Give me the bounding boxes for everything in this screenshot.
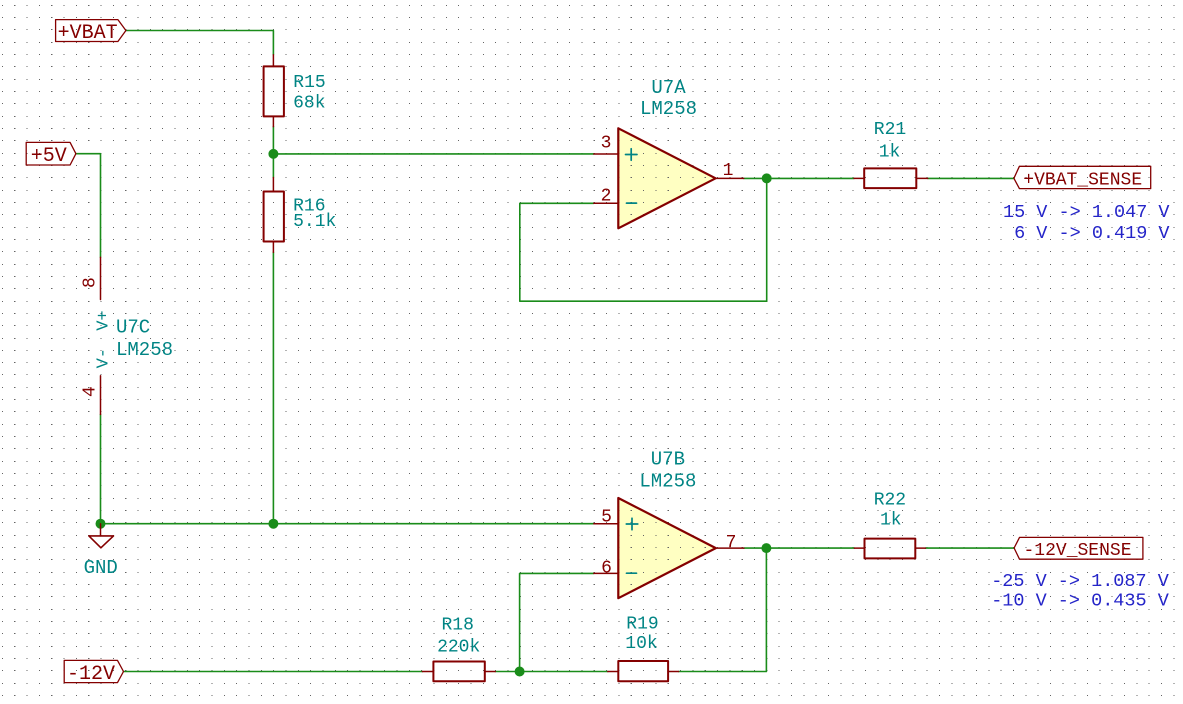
svg-text:1k: 1k: [879, 143, 901, 163]
junction node R16 bottom on GND rail: [268, 519, 278, 529]
op-amp U7C power pin 4 (V-): [100, 376, 102, 415]
hierarchical label -12V_SENSE: [1014, 537, 1143, 559]
hierarchical label +VBAT_SENSE: [1014, 166, 1151, 188]
power label -12V: [64, 660, 123, 682]
svg-text:220k: 220k: [437, 638, 480, 658]
op-amp U7B body fill: [618, 498, 716, 598]
svg-text:10k: 10k: [625, 634, 657, 654]
resistor R21 pins: [854, 177, 928, 179]
svg-text:R22: R22: [874, 491, 906, 511]
resistor R15 pins: [272, 55, 274, 127]
wire U7A output to R21: [744, 177, 854, 179]
svg-text:V-: V-: [94, 348, 113, 368]
wire R22 to -12V_SENSE label: [926, 547, 1015, 549]
op-amp U7C power pin 8 (V+): [100, 257, 102, 299]
junction node U7B output: [761, 543, 771, 553]
resistor R22 pins: [854, 547, 925, 549]
svg-text:4: 4: [80, 386, 100, 397]
svg-text:V+: V+: [94, 310, 113, 330]
wire R18 to R19 through node: [495, 671, 608, 673]
svg-text:U7C: U7C: [116, 317, 150, 339]
resistor R16 pins: [272, 178, 274, 253]
svg-text:2: 2: [601, 187, 612, 207]
wire +VBAT label to R15 top: [126, 31, 273, 55]
junction node GND: [96, 519, 106, 529]
svg-text:1k: 1k: [880, 511, 902, 531]
svg-text:7: 7: [726, 533, 737, 553]
op-amp U7A pins 3,2,1: [594, 154, 744, 203]
svg-text:U7B: U7B: [651, 449, 685, 471]
resistor R19 body: [618, 661, 668, 681]
svg-text:-12V: -12V: [67, 663, 115, 686]
svg-text:LM258: LM258: [116, 339, 173, 361]
resistor R19 pins: [608, 671, 679, 673]
svg-text:GND: GND: [84, 557, 118, 579]
junction node R15/R16 divider: [268, 149, 278, 159]
wire node up to U7B pin 6: [520, 573, 594, 671]
wire R15 bottom to R16 top through node: [272, 127, 274, 178]
wire U7B output to R22: [744, 547, 854, 549]
wire GND rail to U7B pin 5: [101, 523, 594, 525]
resistor R18 pins: [422, 671, 495, 673]
svg-text:5: 5: [601, 507, 612, 527]
op-amp U7A plus input mark: [626, 149, 638, 161]
op-amp U7A body fill: [618, 128, 715, 228]
wire R16 bottom to GND rail: [272, 252, 274, 524]
junction node R18/R19: [515, 667, 525, 677]
svg-text:8: 8: [80, 277, 100, 288]
svg-text:15 V -> 1.047 V: 15 V -> 1.047 V: [1003, 202, 1170, 223]
power label +5V: [26, 142, 76, 165]
op-amp U7A minus input mark: [627, 202, 637, 204]
svg-text:6 V -> 0.419 V: 6 V -> 0.419 V: [1003, 223, 1170, 244]
resistor R18 body: [433, 662, 484, 682]
svg-text:R19: R19: [626, 615, 658, 635]
svg-text:R18: R18: [441, 616, 473, 636]
wire +5V label to U7C pin 8: [76, 154, 101, 258]
svg-text:1: 1: [723, 161, 734, 181]
wire U7A feedback output to pin 2: [520, 178, 767, 301]
wire U7C pin 4 to GND node: [100, 414, 102, 523]
svg-text:+VBAT: +VBAT: [58, 22, 118, 45]
op-amp U7B plus input mark: [626, 518, 638, 530]
power label +VBAT: [56, 20, 126, 42]
svg-text:-25 V -> 1.087 V: -25 V -> 1.087 V: [991, 571, 1169, 592]
svg-text:U7A: U7A: [651, 77, 686, 99]
op-amp U7B body: [618, 498, 716, 598]
resistor R21 body: [864, 168, 916, 188]
op-amp U7B minus input mark: [627, 572, 637, 574]
op-amp U7B pins 5,6,7: [594, 524, 744, 574]
svg-text:R21: R21: [874, 120, 906, 140]
wire R21 to +VBAT_SENSE label: [928, 177, 1014, 179]
wire U7B feedback output down to R19: [679, 548, 767, 671]
ground: [100, 524, 102, 536]
junction node U7A output: [762, 173, 772, 183]
svg-text:-12V_SENSE: -12V_SENSE: [1024, 541, 1132, 561]
svg-text:68k: 68k: [293, 94, 325, 114]
resistor R16 body: [264, 192, 284, 242]
wire node to U7A pin 3: [273, 153, 593, 155]
svg-text:R15: R15: [293, 73, 325, 93]
svg-text:+VBAT_SENSE: +VBAT_SENSE: [1023, 170, 1142, 190]
svg-text:3: 3: [601, 133, 612, 153]
op-amp U7A body: [618, 128, 715, 228]
resistor R15 body: [264, 66, 284, 116]
svg-text:LM258: LM258: [640, 98, 697, 120]
svg-text:+5V: +5V: [31, 145, 67, 168]
svg-text:5.1k: 5.1k: [293, 212, 336, 232]
svg-text:-10 V -> 0.435 V: -10 V -> 0.435 V: [991, 591, 1169, 612]
resistor R22 body: [865, 539, 916, 559]
wire -12V label to R18: [124, 671, 423, 673]
svg-text:LM258: LM258: [639, 471, 696, 493]
svg-text:6: 6: [601, 558, 612, 578]
